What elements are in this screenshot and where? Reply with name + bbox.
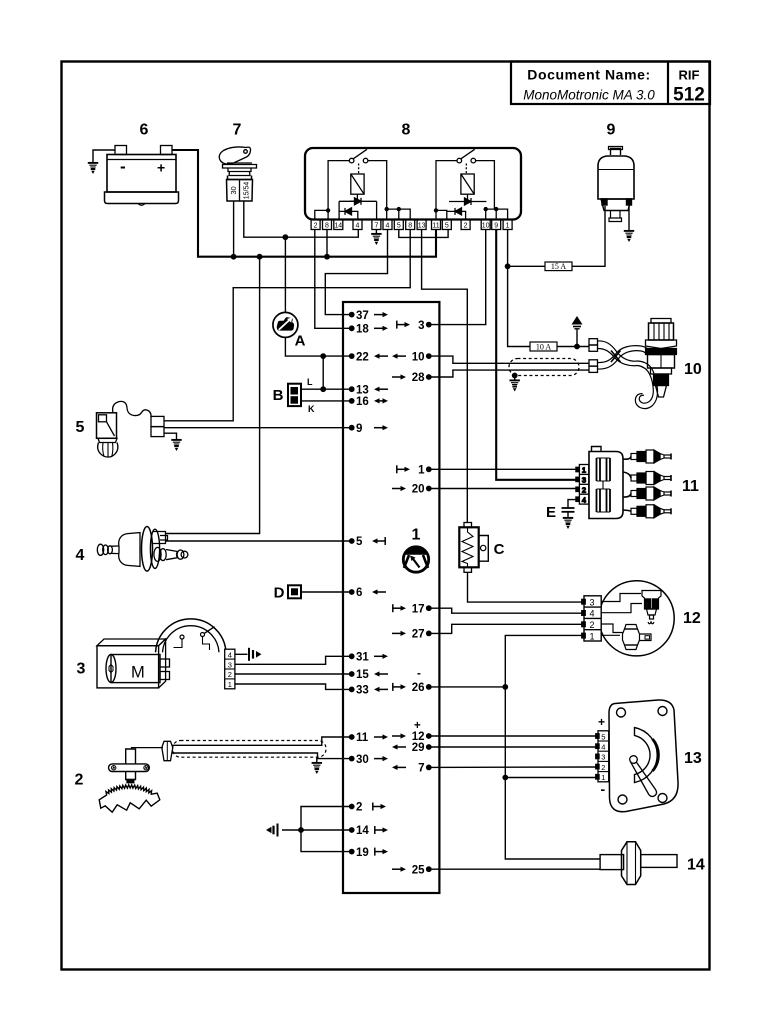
wire ECU pin10 to lambda (429, 356, 589, 363)
wire battery- to ground (93, 150, 115, 162)
pin 2 (349, 804, 355, 810)
harness wavy wires (598, 341, 639, 361)
junction feed/throttle-1 (502, 775, 508, 781)
fuel sensor 14 (600, 842, 705, 885)
junction relay-pin1/fuse-15A (505, 263, 511, 269)
connector 2 (162, 741, 173, 760)
svg-text:10: 10 (482, 223, 490, 230)
wire sensor 2 shield top to ECU pin 11 (173, 737, 352, 745)
svg-text:MonoMotronic MA 3.0: MonoMotronic MA 3.0 (523, 88, 655, 103)
svg-text:4: 4 (601, 743, 605, 752)
relay pin row (311, 220, 512, 230)
svg-text:26: 26 (412, 682, 425, 694)
ECU box (component 1) (343, 302, 439, 893)
wire relay jumper pin5-pin5 (399, 230, 448, 238)
solenoid valve 5 (76, 401, 164, 457)
wire relay pin8 to bus (326, 230, 328, 257)
pin 1 (426, 466, 432, 472)
windings upper (597, 458, 611, 481)
svg-text:13: 13 (684, 750, 702, 767)
svg-text:4: 4 (589, 609, 594, 619)
wires placeholder (93, 150, 629, 869)
wire connector B K to ECU pin 16 (301, 400, 352, 402)
wire motor 3 pin1 to ECU pin 33 (235, 684, 352, 689)
relay pin 13 (417, 220, 426, 230)
svg-text:4: 4 (582, 495, 586, 504)
svg-text:+: + (157, 160, 165, 176)
svg-text:10 A: 10 A (536, 342, 552, 351)
toothed wheel (99, 785, 160, 812)
ECU logo symbol 1 (403, 527, 428, 573)
svg-text:D: D (274, 585, 285, 602)
svg-text:5: 5 (76, 419, 85, 436)
temp sensor 4 (76, 527, 188, 572)
svg-text:7: 7 (418, 763, 424, 775)
svg-text:11: 11 (682, 478, 699, 495)
svg-text:33: 33 (356, 685, 369, 697)
idle stepper motor 3 (77, 619, 235, 689)
svg-text:19: 19 (356, 847, 369, 859)
svg-text:11: 11 (356, 732, 369, 744)
relay pin 9 (492, 220, 501, 230)
ECU pins right (392, 320, 432, 877)
wire shield 2 ground stem (316, 757, 318, 762)
wire ECU pin17 to unit 12 pin4 (429, 608, 584, 613)
ignition coil 11 connector (576, 465, 589, 505)
connector D (274, 585, 301, 602)
svg-text:B: B (273, 387, 284, 404)
svg-text:2: 2 (601, 763, 605, 772)
svg-text:4: 4 (356, 223, 360, 230)
wire ECU pin12 to throttle pin5 (429, 735, 598, 737)
wire motor 3 pin2 to ECU pin 15 (235, 673, 352, 675)
ground relay pin 7 (375, 230, 377, 234)
pin 22 (349, 353, 355, 359)
svg-text:5: 5 (601, 732, 605, 741)
dome (156, 619, 227, 652)
svg-text:A: A (295, 333, 306, 350)
svg-text:9: 9 (356, 423, 362, 435)
svg-text:RIF: RIF (679, 68, 700, 83)
pin 26 (426, 684, 432, 690)
relay pin 1 (503, 220, 512, 230)
svg-text:-: - (120, 157, 126, 176)
relay K2 diode 2 (447, 211, 466, 219)
ground battery (88, 163, 98, 174)
svg-text:4: 4 (386, 223, 390, 230)
relay pin 5 (442, 220, 451, 230)
svg-text:10: 10 (412, 351, 425, 363)
wire sensor 2 shield bottom to ECU pin 30 (173, 753, 352, 759)
lambda sensor 10 (598, 319, 702, 409)
junction bus/sensor-4 feed (257, 254, 263, 260)
wire motor 3 pin4 to chassis arrow (235, 653, 248, 655)
pin 37 (349, 312, 355, 318)
relay pin 5 (394, 220, 403, 230)
wire feed node to throttle pin1 (505, 777, 598, 779)
pin 17 (426, 605, 432, 611)
pin 33 (349, 687, 355, 693)
wire fuse 10A to lambda heater (557, 346, 589, 348)
junction shield ground (512, 373, 518, 379)
fuel pump 9 (598, 122, 634, 222)
pin 3 (426, 322, 432, 328)
wire ignition 15/54 to relay pin 4 (244, 201, 358, 237)
ground pump 9 (624, 231, 634, 242)
relay K2 internal wires (436, 161, 457, 220)
wire ECU pin7 to throttle pin2 (429, 766, 598, 768)
wire ECU pin20 to coil pin2 (429, 488, 580, 490)
svg-text:1: 1 (228, 680, 232, 689)
svg-text:9: 9 (494, 223, 498, 230)
svg-text:3: 3 (228, 660, 232, 669)
connector 12 (584, 596, 601, 641)
wire ECU pin29 to throttle pin4 (429, 746, 598, 748)
svg-text:25: 25 (412, 864, 425, 876)
relay K1 diode 2 (339, 211, 358, 219)
junction relay-pin8/bus (324, 254, 330, 260)
wire valve 5 ground stub (164, 433, 177, 439)
svg-text:1: 1 (418, 465, 425, 477)
wire ECU pin2/19 loop (301, 807, 352, 852)
wire motor 3 pin3 to ECU pin 31 (235, 656, 352, 664)
pin 27 (426, 631, 432, 637)
ignition coil 11 body (589, 447, 699, 519)
power symbol lambda heater (572, 316, 583, 331)
wire connector D to ECU pin 6 (301, 591, 352, 593)
relay K2 coil (461, 174, 474, 194)
lambda connectors (589, 339, 598, 373)
svg-text:-: - (601, 781, 606, 797)
svg-text:29: 29 (412, 742, 425, 754)
svg-text:8: 8 (402, 122, 411, 139)
injector inside (601, 594, 641, 602)
relay pin 10 (481, 220, 490, 230)
spark plugs (623, 457, 631, 512)
svg-text:6: 6 (140, 122, 149, 139)
svg-text:5: 5 (445, 223, 449, 230)
svg-text:+: + (598, 715, 605, 729)
wire connector B L to ECU pin 13 (301, 388, 352, 390)
junction ignition-30/bus (231, 254, 237, 260)
pin 14 (349, 827, 355, 833)
diagnostic lamp A (273, 312, 306, 349)
svg-text:3: 3 (418, 320, 424, 332)
pin 20 (426, 486, 432, 492)
svg-text:8: 8 (325, 223, 329, 230)
svg-text:12: 12 (683, 610, 701, 627)
relay pin 2 (311, 220, 320, 230)
svg-text:13: 13 (418, 223, 426, 230)
wire power symbol stem (576, 331, 578, 347)
wire node A-branch to L line (322, 356, 324, 389)
dome switch (180, 635, 184, 639)
wire sensor 4 to ECU pin 5 (166, 540, 352, 542)
svg-text:15: 15 (356, 669, 369, 681)
relay K1 coil (351, 174, 364, 194)
throttle position 13 (596, 700, 702, 812)
relay pin 8 (406, 220, 415, 230)
svg-text:16: 16 (356, 396, 369, 408)
svg-text:K: K (308, 404, 315, 414)
svg-text:E: E (546, 504, 556, 521)
svg-text:8: 8 (408, 223, 412, 230)
junction heater/power (574, 344, 580, 350)
svg-text:30: 30 (229, 186, 238, 194)
svg-text:Document Name:: Document Name: (527, 67, 651, 83)
rotor arc (635, 728, 658, 783)
wire node to lamp A (284, 237, 286, 312)
relay box 8 (305, 122, 521, 220)
sensor body (651, 319, 671, 324)
diagnostic connector B (273, 377, 315, 414)
wire fuse 15A to pump 9 (508, 206, 605, 266)
wire ECU pin1 to coil pin1 (429, 468, 580, 470)
svg-text:+: + (414, 720, 421, 732)
svg-text:3: 3 (77, 661, 86, 678)
relay pin 2 (461, 220, 470, 230)
battery 6 (105, 122, 179, 206)
pin 13 (349, 386, 355, 392)
relay K1 switch (349, 158, 354, 163)
svg-text:C: C (494, 541, 505, 558)
svg-text:1: 1 (589, 631, 594, 641)
svg-text:18: 18 (356, 324, 369, 336)
svg-text:3: 3 (601, 753, 605, 762)
svg-text:M: M (131, 664, 145, 682)
svg-text:7: 7 (374, 223, 378, 230)
svg-text:27: 27 (412, 629, 425, 641)
svg-text:3: 3 (589, 597, 594, 607)
relay K2 switch (457, 158, 462, 163)
svg-text:2: 2 (582, 486, 586, 495)
connector 13 (598, 731, 609, 782)
svg-text:10: 10 (684, 361, 702, 378)
svg-text:2: 2 (314, 223, 318, 230)
connector 3 (225, 649, 235, 689)
wire lamp A to ECU pin 22 (285, 337, 351, 356)
pin 29 (426, 744, 432, 750)
wire relay pin1 to fuses (508, 230, 530, 347)
ground capacitor E (563, 518, 573, 529)
wire shield ground stem (514, 376, 516, 380)
svg-text:2: 2 (228, 670, 232, 679)
ECU pins left (349, 310, 388, 859)
wire battery+ to bus (172, 150, 436, 257)
svg-text:1: 1 (506, 223, 510, 230)
svg-text:2: 2 (356, 802, 362, 814)
svg-text:512: 512 (673, 85, 705, 106)
svg-text:1: 1 (412, 527, 421, 544)
pin 15 (349, 671, 355, 677)
svg-text:1: 1 (582, 466, 586, 475)
svg-text:14: 14 (687, 857, 705, 874)
ignition switch 7 (219, 122, 256, 202)
relay K1 internal wires (328, 161, 349, 220)
wire ECU pin27 to unit 12 pin2 (429, 624, 584, 633)
svg-text:-: - (417, 668, 421, 680)
svg-text:37: 37 (356, 310, 369, 322)
svg-text:6: 6 (356, 587, 362, 599)
pin 6 (349, 589, 355, 595)
svg-text:5: 5 (356, 536, 363, 548)
svg-text:9: 9 (607, 122, 616, 139)
svg-text:4: 4 (228, 650, 232, 659)
wire resistor C to unit 12 pin3 (468, 572, 585, 602)
rpm sensor 2 (75, 741, 173, 812)
svg-text:5: 5 (397, 223, 401, 230)
regulator inside (601, 624, 622, 633)
capacitor E (546, 500, 579, 521)
wire unit 12 pin1 to vertical feed (505, 635, 600, 859)
junction L-branch/pin13 (320, 386, 326, 392)
ground shield 2 (312, 763, 322, 774)
pin 9 (349, 425, 355, 431)
pin 25 (426, 866, 432, 872)
wire relay pin10 to ECU pin 3 (429, 230, 486, 325)
fuse 10A (530, 342, 557, 351)
pin 11 (349, 734, 355, 740)
wire relay pin13 to resistor C (422, 230, 468, 523)
relay pin 4 (383, 220, 392, 230)
svg-text:2: 2 (589, 620, 594, 630)
pin 28 (426, 374, 432, 380)
svg-text:3: 3 (582, 476, 586, 485)
svg-text:17: 17 (412, 603, 425, 615)
injection unit 12 (582, 581, 701, 656)
junction 15-54/lamp-A (283, 234, 289, 240)
wire ECU pin28 to lambda (429, 370, 589, 377)
ground lambda shield (510, 380, 520, 391)
svg-text:20: 20 (412, 484, 425, 496)
wire sensor 4 to bus riser (166, 257, 260, 534)
pin 16 (349, 398, 355, 404)
svg-text:2: 2 (75, 772, 84, 789)
ground valve 5 (171, 440, 181, 451)
pin 10 (426, 353, 432, 359)
pin 19 (349, 849, 355, 855)
svg-text:L: L (307, 377, 313, 387)
svg-text:11: 11 (432, 223, 439, 230)
wire ignition 30 to bus (233, 201, 235, 257)
chassis arrow motor 3 (249, 648, 262, 661)
svg-text:2: 2 (464, 223, 468, 230)
relay pin 8 (323, 220, 332, 230)
svg-text:31: 31 (356, 652, 369, 664)
wire pump 9 to ground (628, 206, 630, 230)
svg-text:4: 4 (76, 547, 85, 564)
svg-text:7: 7 (233, 122, 242, 139)
svg-text:13: 13 (356, 384, 369, 396)
chassis arrow pin 14 (266, 824, 278, 837)
pin 7 (426, 765, 432, 771)
pin 31 (349, 653, 355, 659)
relay pin 11 (432, 220, 441, 230)
svg-text:28: 28 (412, 372, 425, 384)
title block (511, 62, 710, 106)
svg-text:30: 30 (356, 754, 369, 766)
pin 30 (349, 756, 355, 762)
windings lower (597, 489, 611, 512)
svg-text:15 A: 15 A (551, 262, 567, 271)
svg-text:14: 14 (356, 825, 369, 837)
svg-text:22: 22 (356, 351, 369, 363)
pin 18 (349, 325, 355, 331)
junction dots relay internal (326, 208, 330, 212)
shield dashes sensor 2 (173, 741, 327, 758)
wire relay pin4b to ECU pin 37 (325, 230, 387, 315)
relay pin 4 (353, 220, 362, 230)
wire valve 5 to ECU pin 9 (164, 427, 352, 429)
fuse 15A (545, 262, 572, 271)
junction pin26/feed (502, 684, 508, 690)
lambda shield (509, 359, 579, 376)
wire relay pin2 to ECU pin 18 (315, 230, 352, 329)
svg-text:15/54: 15/54 (244, 182, 251, 200)
relay K1 diode 1 (339, 201, 377, 219)
relay pin 7 (372, 220, 381, 230)
relay K2 diode 1 (449, 201, 486, 203)
outer border frame (62, 62, 710, 970)
wire ECU pin26 to feed node (429, 686, 506, 688)
wire ECU pin25 to sensor 14 (429, 868, 600, 870)
wire relay pin9 to coil pin3 (496, 230, 579, 480)
svg-text:14: 14 (334, 223, 342, 230)
junction pin22/L-branch (320, 353, 326, 359)
wire relay pin8b to valve 5 (164, 230, 410, 421)
pin 5 (349, 538, 355, 544)
junction pin14/pin2-19 loop (298, 827, 304, 833)
pin 12 (426, 733, 432, 739)
wire ECU pin14 to chassis arrow (282, 829, 352, 831)
heater resistor C (459, 523, 504, 573)
relay pin 14 (334, 220, 343, 230)
